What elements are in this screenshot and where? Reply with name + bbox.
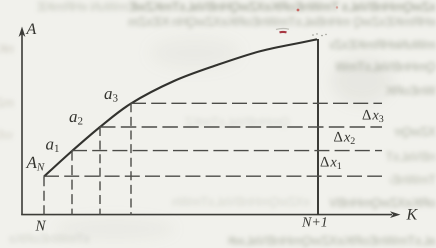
- faint mottle blotches: [332, 58, 392, 104]
- svg-text:a2: a2: [69, 107, 83, 128]
- svg-text:AN: AN: [26, 153, 45, 174]
- gray specks above curve end: [312, 33, 326, 36]
- x-axis arrowhead: [390, 211, 401, 218]
- red speck: [297, 9, 300, 12]
- dashed vertical below a3: [130, 103, 132, 214]
- dashed vertical at N: [43, 176, 45, 214]
- svg-text:N: N: [35, 218, 47, 234]
- svg-text:N+1: N+1: [301, 215, 328, 230]
- y-axis arrowhead: [19, 27, 26, 38]
- dashed horizontal at A_N level: [44, 175, 382, 177]
- svg-text:a1: a1: [46, 134, 60, 155]
- dashed horizontal at a1 level: [72, 150, 382, 152]
- vertical line at N+1: [317, 39, 319, 215]
- left margin faint smudges: [0, 42, 14, 56]
- curve A(K): [44, 39, 317, 176]
- dashed vertical below a1: [71, 151, 73, 215]
- x-axis: [21, 214, 392, 216]
- svg-text:a3: a3: [104, 84, 119, 105]
- svg-text:Δx1: Δx1: [320, 155, 342, 173]
- bleedthrough text rows (scan artifacts): [0, 0, 128, 14]
- gray streak above red mark: [276, 28, 289, 31]
- dashed horizontal at a3 level: [131, 102, 382, 104]
- dashed vertical below a2: [99, 127, 101, 215]
- svg-text:Δx3: Δx3: [362, 108, 384, 126]
- svg-text:K: K: [406, 206, 419, 223]
- red pen mark: [280, 31, 287, 33]
- red speck 2: [336, 6, 338, 8]
- y-axis: [21, 34, 23, 215]
- dashed horizontal at a2 level: [100, 126, 382, 128]
- svg-text:A: A: [26, 21, 37, 38]
- svg-text:Δx2: Δx2: [334, 130, 356, 148]
